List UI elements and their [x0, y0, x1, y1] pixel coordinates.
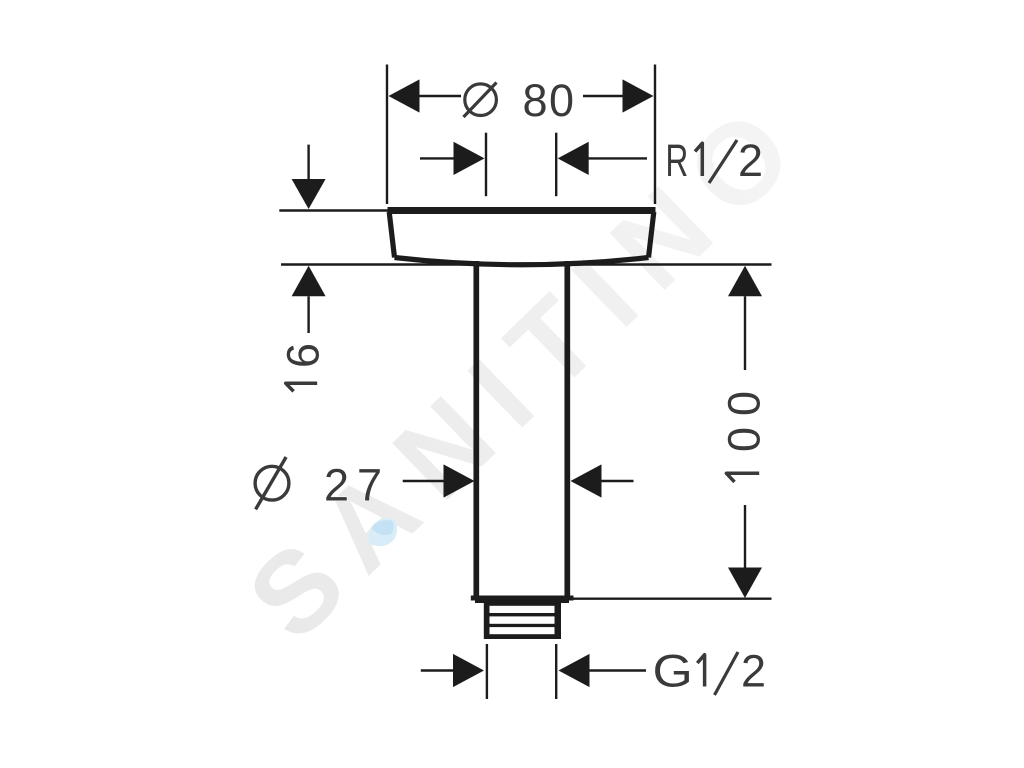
watermark text SANITINO (rotated): [225, 72, 832, 664]
diameter symbol of 27: slash: [256, 457, 287, 509]
arrowhead G1/2 left (points right): [453, 654, 484, 687]
lip nub right: [569, 596, 574, 601]
svg-text:8: 8: [523, 75, 548, 126]
pipe right wall: [564, 261, 570, 596]
svg-text:2: 2: [324, 460, 349, 511]
arrowhead R1/2 right (points left): [558, 142, 589, 175]
arrowhead dia80 left: [389, 79, 420, 112]
arrowhead dia80 right: [623, 79, 654, 112]
svg-text:00: 00: [719, 380, 770, 452]
dim line dia 27 left segment: [403, 480, 446, 482]
leader line 100 lower: [744, 505, 746, 568]
pipe left wall: [473, 261, 479, 596]
diameter symbol of 80: circle: [465, 84, 497, 116]
svg-text:7: 7: [357, 460, 382, 511]
dim line G1/2 right segment: [590, 669, 647, 671]
flange bottom curve: [395, 258, 649, 265]
slash of G1/2: [715, 652, 739, 695]
extension line left of dia 80: [386, 65, 388, 205]
dim line R1/2 right segment: [586, 157, 647, 159]
arrowhead dia27 left (points right): [444, 464, 475, 497]
arrowhead 16 bottom (points up): [292, 266, 326, 297]
tick right G1/2: [555, 644, 557, 699]
digit 1 of R1/2 (custom): [695, 143, 702, 176]
svg-text:G: G: [653, 647, 693, 697]
arrowhead 100 bottom (points down): [728, 568, 762, 599]
svg-text:2: 2: [741, 646, 766, 697]
tick left R1/2: [485, 133, 487, 197]
flange right edge: [649, 212, 654, 258]
thread white stripe 1: [490, 606, 555, 613]
arrowhead dia27 right (points left): [571, 464, 602, 497]
flange top edge: [388, 207, 656, 214]
tick left G1/2: [486, 644, 488, 699]
svg-text:2: 2: [738, 135, 763, 186]
lip nub left: [471, 596, 476, 601]
dim line G1/2 left segment: [421, 669, 456, 671]
digit 1 of 100 (custom, rotated): [726, 473, 759, 482]
pipe bottom lip: [475, 596, 569, 604]
leader line above arrow 16 top: [307, 145, 309, 182]
diameter symbol of 80: slash: [464, 83, 497, 118]
digit 1 of G1/2 (custom): [697, 655, 704, 687]
dim line dia 80 left segment: [417, 95, 461, 97]
leader line 100 upper: [744, 296, 746, 370]
extension line right of dia 80: [654, 65, 656, 205]
dim line R1/2 left segment: [420, 157, 458, 159]
diameter symbol of 27: circle: [255, 466, 289, 500]
svg-text:R: R: [666, 137, 689, 187]
dim line dia 27 right segment: [601, 480, 634, 482]
svg-text:6: 6: [278, 343, 329, 368]
arrowhead 16 top (points down): [292, 179, 326, 209]
digit 1 of 16 (custom, rotated): [286, 383, 318, 391]
thread white stripe 2: [490, 616, 555, 623]
watermark blue drop: [369, 518, 397, 546]
tick right R1/2: [555, 133, 557, 197]
slash of R1/2: [709, 140, 737, 183]
flange bottom reference line B: [281, 263, 772, 265]
arrowhead 100 top (points up): [728, 266, 762, 297]
flange left edge: [389, 212, 394, 258]
arrowhead R1/2 left (points right): [454, 142, 485, 175]
ceiling reference line A: [279, 209, 390, 211]
dim line dia 80 right segment: [583, 95, 625, 97]
arrowhead G1/2 right (points left): [559, 654, 590, 687]
leader line below arrow 16 bottom: [307, 296, 309, 333]
svg-text:0: 0: [549, 75, 574, 126]
threaded nipple block: [484, 601, 561, 639]
pipe end reference line C: [573, 598, 772, 600]
thread white stripe 3: [490, 627, 555, 634]
product outline: flange: [388, 211, 656, 597]
